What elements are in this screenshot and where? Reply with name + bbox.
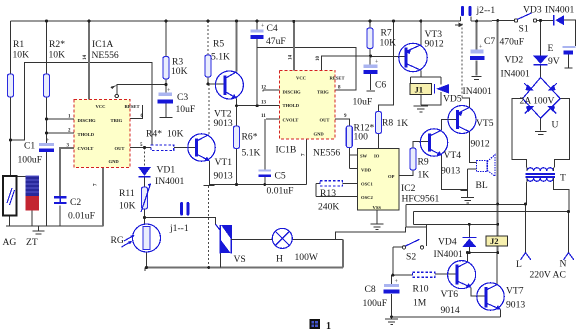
svg-text:CVOLT: CVOLT (78, 146, 94, 151)
svg-text:10: 10 (316, 56, 321, 62)
svg-text:VD1: VD1 (157, 165, 176, 176)
svg-text:5.1K: 5.1K (242, 148, 261, 159)
svg-text:2A 100V: 2A 100V (520, 96, 555, 107)
svg-text:RG: RG (111, 235, 124, 246)
svg-text:IN4001: IN4001 (501, 69, 531, 80)
svg-text:C8: C8 (365, 284, 376, 295)
svg-text:S1: S1 (519, 24, 529, 35)
svg-text:IN4001: IN4001 (155, 176, 185, 187)
svg-text:CVOLT: CVOLT (283, 118, 299, 123)
svg-text:BL: BL (476, 180, 488, 191)
svg-text:VD3: VD3 (523, 5, 542, 16)
svg-text:10K: 10K (49, 50, 66, 61)
svg-text:VD4: VD4 (438, 237, 457, 248)
svg-text:IC1A: IC1A (92, 39, 113, 50)
svg-text:C1: C1 (24, 141, 35, 152)
svg-text:5.1K: 5.1K (211, 52, 230, 63)
svg-text:VT7: VT7 (506, 286, 524, 297)
svg-text:VT4: VT4 (444, 150, 462, 161)
svg-text:C2: C2 (70, 197, 81, 208)
svg-text:VT5: VT5 (476, 118, 494, 129)
svg-text:100uF: 100uF (18, 155, 43, 166)
svg-text:AG: AG (3, 237, 17, 248)
svg-text:J1: J1 (415, 85, 424, 95)
svg-text:OP: OP (388, 174, 395, 179)
svg-text:DISCHG: DISCHG (78, 118, 97, 123)
svg-text:14: 14 (83, 55, 88, 61)
svg-text:VD5: VD5 (443, 94, 462, 105)
svg-text:240K: 240K (318, 202, 339, 213)
svg-text:1M: 1M (413, 298, 427, 309)
svg-text:IO: IO (374, 154, 380, 159)
svg-text:1K: 1K (418, 170, 430, 181)
svg-text:OSC1: OSC1 (361, 182, 373, 187)
svg-text:IC2: IC2 (401, 183, 416, 194)
svg-text:J2: J2 (490, 236, 499, 246)
svg-text:T: T (560, 173, 566, 184)
svg-text:13: 13 (261, 101, 267, 106)
svg-text:VS: VS (234, 254, 246, 265)
svg-text:C6: C6 (375, 80, 386, 91)
svg-text:GND: GND (314, 132, 325, 137)
svg-text:THOLD: THOLD (78, 132, 95, 137)
svg-text:S2: S2 (406, 252, 416, 263)
svg-text:R1: R1 (13, 39, 24, 50)
svg-text:j2--1: j2--1 (476, 5, 496, 16)
svg-text:H: H (276, 254, 283, 265)
svg-text:IN4001: IN4001 (545, 5, 575, 16)
svg-text:12: 12 (261, 86, 267, 91)
svg-text:R10: R10 (413, 284, 429, 295)
svg-text:9012: 9012 (425, 39, 444, 50)
svg-text:0.01uF: 0.01uF (68, 211, 95, 222)
svg-text:VSS: VSS (373, 205, 382, 210)
svg-text:C5: C5 (275, 171, 286, 182)
svg-text:100: 100 (354, 132, 369, 143)
svg-text:TRIG: TRIG (317, 90, 329, 95)
svg-text:9012: 9012 (471, 139, 490, 150)
svg-text:100uF: 100uF (363, 298, 388, 309)
svg-text:11: 11 (261, 114, 266, 119)
svg-text:9013: 9013 (214, 118, 233, 129)
svg-text:47uF: 47uF (266, 36, 286, 47)
svg-text:R9: R9 (418, 157, 429, 168)
svg-text:VT1: VT1 (215, 157, 233, 168)
svg-text:U: U (552, 120, 559, 131)
svg-text:IC1B: IC1B (276, 145, 297, 156)
svg-text:VD2: VD2 (505, 55, 524, 66)
svg-text:R4*: R4* (146, 129, 162, 140)
svg-text:10K: 10K (13, 50, 30, 61)
svg-text:C4: C4 (267, 23, 278, 34)
svg-text:OSC2: OSC2 (361, 195, 373, 200)
svg-text:C7: C7 (484, 36, 495, 47)
svg-text:C3: C3 (177, 92, 188, 103)
svg-text:9013: 9013 (506, 300, 525, 311)
svg-text:GND: GND (109, 159, 120, 164)
svg-text:9V: 9V (548, 56, 560, 67)
svg-text:IN4001: IN4001 (463, 86, 493, 97)
svg-text:NE556: NE556 (92, 50, 119, 61)
svg-text:100W: 100W (295, 252, 319, 263)
svg-text:SW: SW (360, 154, 368, 159)
svg-text:9013: 9013 (214, 171, 233, 182)
svg-text:10uF: 10uF (353, 97, 373, 108)
svg-text:10K: 10K (380, 38, 397, 49)
svg-text:R8: R8 (382, 118, 393, 129)
svg-text:R13: R13 (320, 188, 336, 199)
svg-text:E: E (548, 43, 554, 54)
svg-text:1: 1 (326, 321, 331, 332)
svg-text:j1--1: j1--1 (169, 223, 189, 234)
svg-text:R2*: R2* (49, 39, 65, 50)
svg-text:10K: 10K (167, 129, 184, 140)
svg-text:9013: 9013 (441, 166, 460, 177)
svg-text:R5: R5 (213, 39, 224, 50)
svg-text:R11: R11 (119, 188, 135, 199)
svg-text:VDD: VDD (361, 168, 372, 173)
svg-text:RESET: RESET (330, 76, 345, 81)
svg-text:VCC: VCC (96, 104, 106, 109)
svg-text:DISCHG: DISCHG (283, 90, 302, 95)
svg-text:THOLD: THOLD (283, 103, 300, 108)
svg-text:R6*: R6* (242, 132, 258, 143)
svg-text:1K: 1K (397, 118, 409, 129)
svg-text:NE556: NE556 (313, 148, 340, 159)
svg-text:14: 14 (289, 55, 294, 61)
svg-text:10K: 10K (171, 66, 188, 77)
svg-text:470uF: 470uF (500, 37, 525, 48)
svg-text:OUT: OUT (115, 146, 125, 151)
svg-text:OUT: OUT (320, 118, 330, 123)
svg-text:VCC: VCC (296, 76, 306, 81)
svg-text:N: N (560, 259, 567, 270)
svg-text:ZT: ZT (26, 237, 38, 248)
svg-text:9014: 9014 (441, 305, 460, 316)
svg-text:IN4001: IN4001 (434, 249, 464, 260)
svg-text:10K: 10K (119, 201, 136, 212)
svg-text:0.01uF: 0.01uF (267, 186, 294, 197)
svg-text:L: L (516, 259, 522, 270)
svg-text:TRIG: TRIG (111, 118, 123, 123)
svg-text:RESET: RESET (125, 104, 140, 109)
svg-text:220V AC: 220V AC (530, 270, 566, 281)
svg-text:HFC9561: HFC9561 (402, 194, 440, 205)
svg-text:VT6: VT6 (441, 289, 459, 300)
svg-text:10uF: 10uF (176, 104, 196, 115)
